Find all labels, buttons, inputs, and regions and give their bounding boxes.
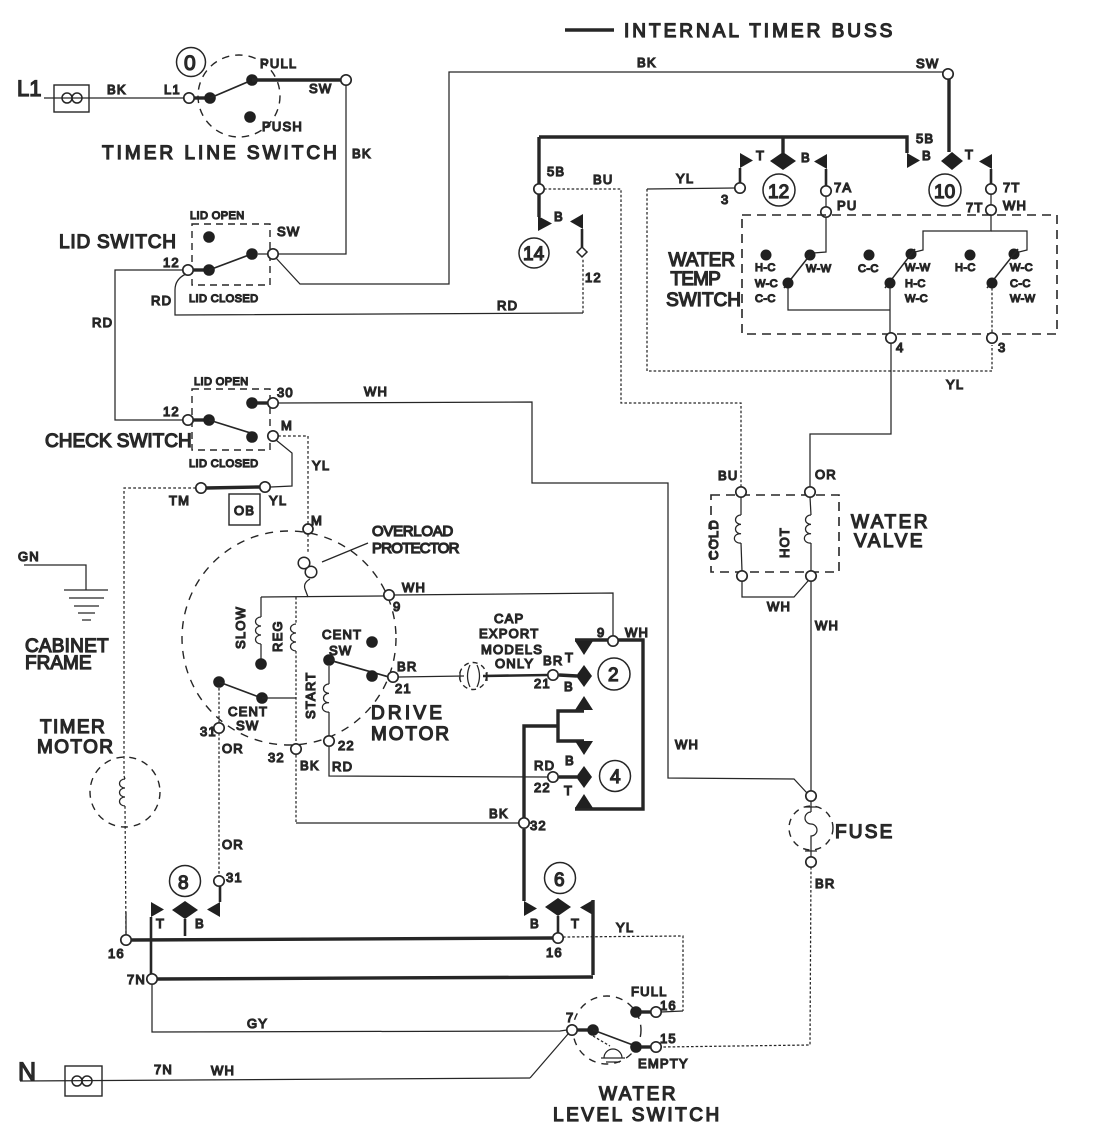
svg-text:WH: WH (1003, 198, 1027, 213)
timer motor (37, 717, 160, 935)
timer cam switch 6 (524, 863, 593, 976)
svg-text:7T: 7T (966, 200, 984, 215)
svg-text:22: 22 (534, 780, 551, 795)
svg-text:BR: BR (815, 876, 835, 891)
svg-text:M: M (281, 418, 293, 433)
svg-text:L1: L1 (164, 82, 181, 97)
svg-text:22: 22 (338, 738, 355, 753)
svg-text:WATER: WATER (851, 512, 930, 533)
svg-text:B: B (564, 679, 574, 694)
node M motor (303, 524, 313, 534)
coil START (303, 666, 329, 736)
svg-text:W-W: W-W (806, 263, 832, 275)
legend INTERNAL TIMER BUSS (565, 21, 895, 42)
svg-text:WH: WH (675, 737, 699, 752)
svg-text:WATER: WATER (669, 250, 736, 271)
svg-text:SW: SW (309, 81, 332, 96)
node 31 upper (200, 688, 244, 756)
svg-text:OB: OB (234, 503, 255, 518)
svg-text:CAP: CAP (494, 611, 524, 626)
svg-text:EMPTY: EMPTY (638, 1056, 689, 1071)
wire M from check switch to motor (278, 436, 330, 528)
svg-text:RD: RD (332, 759, 353, 774)
svg-text:REG: REG (270, 620, 285, 652)
svg-text:6: 6 (554, 870, 565, 891)
svg-text:LID SWITCH: LID SWITCH (59, 232, 177, 253)
svg-text:GY: GY (247, 1016, 268, 1031)
svg-text:B: B (554, 209, 564, 224)
contact C-C (858, 250, 879, 276)
svg-text:T: T (564, 783, 573, 798)
coil SLOW (233, 597, 267, 670)
node 22 motor (324, 736, 355, 774)
svg-text:W-C: W-C (1010, 262, 1033, 274)
node 16 left (108, 935, 131, 961)
svg-text:WH: WH (767, 599, 791, 614)
svg-text:T: T (965, 147, 974, 162)
link cam2 B to cam4 B to node 32 (524, 711, 584, 818)
svg-text:OVERLOAD: OVERLOAD (372, 523, 453, 540)
node TM / YL (169, 482, 287, 508)
svg-text:TEMP: TEMP (670, 269, 720, 290)
svg-text:BR: BR (543, 653, 563, 668)
svg-text:T: T (571, 916, 580, 931)
switch C (W-C C-C W-W) (987, 231, 1036, 333)
svg-text:BU: BU (593, 172, 613, 187)
svg-text:OR: OR (815, 467, 837, 482)
svg-text:GN: GN (18, 549, 40, 564)
coil COLD (706, 497, 742, 571)
svg-text:C-C: C-C (858, 263, 879, 275)
cabinet frame ground (18, 549, 109, 674)
terminal N (18, 1058, 530, 1096)
svg-text:MODELS: MODELS (481, 642, 543, 657)
svg-text:B: B (530, 916, 540, 931)
svg-text:7N: 7N (127, 972, 146, 987)
svg-text:DRIVE: DRIVE (371, 703, 445, 724)
water level switch (553, 984, 722, 1126)
terminal L1 (17, 76, 187, 112)
svg-text:BK: BK (107, 82, 127, 97)
box OB (229, 494, 260, 525)
timer cam switch 4 (559, 741, 631, 808)
svg-text:32: 32 (530, 818, 547, 833)
svg-text:H-C: H-C (755, 262, 776, 274)
svg-text:16: 16 (660, 998, 677, 1013)
svg-text:WH: WH (211, 1063, 235, 1078)
timer cam switch 2 and 4 block bracket (575, 640, 643, 809)
wire YL from check switch M to TM-YL node (271, 440, 292, 487)
svg-text:21: 21 (534, 676, 551, 691)
wire GY (152, 985, 567, 1032)
svg-text:3: 3 (998, 340, 1006, 355)
svg-text:FUSE: FUSE (835, 822, 894, 843)
svg-text:LID OPEN: LID OPEN (190, 210, 245, 222)
svg-text:T: T (756, 148, 765, 163)
cent sw upper (322, 627, 389, 682)
svg-text:W-W: W-W (905, 262, 931, 274)
svg-text:9: 9 (393, 599, 401, 614)
switch B (W-W H-C W-C) (885, 215, 992, 333)
drive motor (182, 531, 451, 745)
wire RD from lid switch to cam 14 terminal 12 (151, 258, 583, 315)
svg-text:BU: BU (718, 468, 738, 483)
svg-text:7N: 7N (154, 1062, 173, 1077)
contact H-C (755, 250, 778, 306)
svg-text:3: 3 (721, 192, 729, 207)
node 21 BR (388, 659, 418, 696)
node 22 cam 4 (534, 758, 558, 795)
wire OR from 31 down to cam 8 (219, 733, 244, 876)
svg-text:RD: RD (92, 315, 113, 330)
svg-text:12: 12 (768, 182, 789, 203)
svg-text:CENT: CENT (228, 704, 268, 719)
water valve (711, 495, 930, 572)
bus 5B (internal timer buss) (539, 131, 934, 184)
svg-text:OR: OR (222, 741, 244, 756)
timer cam switch 14 (519, 194, 602, 285)
svg-text:PUSH: PUSH (262, 119, 303, 134)
svg-text:W-C: W-C (905, 293, 928, 305)
wire BK node32 to cam 6 (522, 829, 525, 901)
wire TM down left side (124, 488, 196, 776)
svg-text:MOTOR: MOTOR (371, 724, 451, 745)
lid switch (59, 210, 300, 305)
wire YL to water level switch (563, 920, 683, 1011)
svg-text:BK: BK (300, 758, 320, 773)
svg-text:2: 2 (608, 665, 619, 686)
svg-text:MOTOR: MOTOR (37, 737, 114, 758)
svg-text:C-C: C-C (755, 293, 776, 305)
svg-text:B: B (922, 148, 932, 163)
svg-text:CHECK SWITCH: CHECK SWITCH (45, 431, 192, 452)
svg-text:12: 12 (163, 255, 180, 270)
svg-text:INTERNAL TIMER BUSS: INTERNAL TIMER BUSS (624, 21, 895, 42)
wire YL to cam 12 terminal 3 (647, 171, 992, 392)
node SW (341, 75, 351, 85)
svg-text:LEVEL SWITCH: LEVEL SWITCH (553, 1105, 722, 1126)
switch A (W-W) (783, 217, 891, 310)
svg-text:L1: L1 (17, 76, 41, 101)
svg-text:OR: OR (222, 837, 244, 852)
svg-text:YL: YL (312, 458, 330, 473)
terminal 4 (886, 333, 905, 355)
svg-text:30: 30 (277, 385, 294, 400)
wire RD from 22 to cam 4 node 22 (329, 747, 548, 777)
timer line switch (102, 48, 340, 165)
node 5B (534, 184, 544, 194)
svg-text:12: 12 (163, 404, 180, 419)
svg-text:RD: RD (534, 758, 555, 773)
wire SW down to cam 10 (947, 79, 950, 152)
fuse (789, 791, 894, 891)
timer cam switch 10 (907, 147, 1027, 215)
timer cam switch 8 (151, 866, 220, 976)
svg-text:BK: BK (352, 146, 372, 161)
svg-text:0: 0 (184, 52, 196, 75)
svg-text:TM: TM (169, 493, 190, 508)
wire BU (544, 172, 741, 487)
svg-text:C-C: C-C (1010, 278, 1031, 290)
svg-text:32: 32 (268, 750, 285, 765)
svg-text:YL: YL (616, 920, 634, 935)
valve terminal OR (805, 487, 815, 497)
valve terminal BU (736, 487, 746, 497)
svg-text:16: 16 (546, 945, 563, 960)
svg-text:21: 21 (395, 681, 412, 696)
overload protector (298, 523, 459, 597)
svg-text:B: B (801, 150, 811, 165)
svg-text:31: 31 (226, 870, 243, 885)
node 32 (489, 806, 547, 833)
svg-text:SLOW: SLOW (233, 606, 248, 649)
svg-text:4: 4 (896, 340, 904, 355)
wire 7N bus (157, 977, 593, 979)
svg-text:PULL: PULL (260, 56, 297, 71)
svg-text:N: N (18, 1058, 36, 1086)
svg-text:SW: SW (277, 224, 300, 239)
wire WH valve to fuse (811, 581, 839, 791)
svg-text:ONLY: ONLY (495, 656, 534, 671)
svg-text:BR: BR (397, 659, 417, 674)
wire OR from terminal 4 to water valve (810, 344, 891, 487)
svg-text:LID CLOSED: LID CLOSED (189, 293, 258, 305)
svg-text:VALVE: VALVE (854, 531, 925, 552)
svg-text:PROTECTOR: PROTECTOR (372, 540, 460, 557)
svg-text:FULL: FULL (631, 984, 668, 999)
water temp switch (666, 215, 1057, 334)
svg-text:16: 16 (108, 946, 125, 961)
svg-text:WH: WH (625, 625, 649, 640)
svg-text:T: T (156, 916, 165, 931)
svg-text:5B: 5B (916, 131, 934, 146)
svg-text:12: 12 (585, 270, 602, 285)
svg-text:15: 15 (660, 1031, 677, 1046)
svg-text:14: 14 (523, 244, 545, 265)
node 16 cam 6 (546, 933, 563, 960)
svg-text:H-C: H-C (905, 278, 926, 290)
svg-text:31: 31 (200, 724, 217, 739)
svg-text:TIMER LINE SWITCH: TIMER LINE SWITCH (102, 143, 340, 164)
node 9 WH (384, 590, 394, 600)
svg-text:WATER: WATER (599, 1084, 678, 1105)
svg-text:LID OPEN: LID OPEN (194, 376, 249, 388)
svg-text:EXPORT: EXPORT (479, 626, 539, 641)
wire SW from timer line switch (252, 78, 341, 81)
cent sw lower (213, 676, 296, 733)
svg-text:FRAME: FRAME (25, 653, 92, 674)
svg-text:H-C: H-C (955, 262, 976, 274)
timer cam switch 12 (721, 137, 857, 217)
svg-text:TIMER: TIMER (40, 717, 106, 738)
node 9 WH right (597, 625, 649, 646)
svg-text:BK: BK (637, 55, 657, 70)
node 21 cam 2 (534, 653, 563, 691)
svg-text:BK: BK (489, 806, 509, 821)
svg-text:YL: YL (676, 171, 694, 186)
check switch (45, 376, 294, 470)
svg-text:RD: RD (497, 298, 518, 313)
svg-text:T: T (565, 650, 574, 665)
capacitor C (cap export models only) (399, 611, 548, 690)
valve bottom terminals (737, 571, 747, 581)
wire BR fuse to water level switch (662, 867, 811, 1047)
coil HOT (777, 497, 811, 571)
contact H-C 2 (955, 250, 976, 275)
wire WH row inside motor (261, 580, 613, 636)
svg-text:CENT: CENT (322, 627, 362, 642)
svg-text:5B: 5B (547, 164, 565, 179)
svg-text:SWITCH: SWITCH (666, 290, 741, 311)
svg-text:W-C: W-C (755, 278, 778, 290)
svg-text:B: B (565, 753, 575, 768)
svg-text:PU: PU (837, 198, 857, 213)
svg-text:YL: YL (269, 493, 287, 508)
svg-text:WH: WH (402, 580, 426, 595)
wire BK down to lid switch (279, 85, 372, 254)
terminal 3 (987, 333, 1007, 355)
svg-text:WH: WH (815, 618, 839, 633)
svg-text:9: 9 (597, 625, 605, 640)
wire from lid switch SW to top BK bus (276, 55, 944, 284)
node 7N (127, 972, 157, 987)
wire N to water level switch 7 (530, 1034, 568, 1078)
svg-text:SW: SW (236, 718, 259, 733)
node 32 motor (268, 744, 320, 773)
svg-text:B: B (195, 916, 205, 931)
wire WH from check switch 30 to fuse (278, 384, 807, 793)
svg-text:7A: 7A (834, 180, 852, 195)
svg-text:COLD: COLD (706, 519, 721, 560)
timer cam switch 2 (559, 641, 630, 710)
svg-text:HOT: HOT (777, 527, 792, 558)
svg-text:LID CLOSED: LID CLOSED (189, 458, 258, 470)
svg-text:10: 10 (934, 182, 955, 203)
svg-text:7: 7 (566, 1010, 574, 1025)
svg-text:YL: YL (946, 377, 964, 392)
wire 16 bus (131, 938, 553, 940)
coil REG (270, 597, 296, 744)
node 31 lower (214, 870, 243, 886)
svg-text:8: 8 (178, 873, 189, 894)
svg-text:WH: WH (364, 384, 388, 399)
svg-text:W-W: W-W (1010, 293, 1036, 305)
wire from TM vertical into 16 (125, 912, 127, 935)
wire BK from 32 down to node 32 (295, 755, 297, 823)
node SW top right (943, 69, 953, 79)
svg-text:START: START (303, 672, 318, 719)
svg-text:7T: 7T (1003, 180, 1021, 195)
svg-text:RD: RD (151, 293, 172, 308)
svg-text:SW: SW (916, 56, 939, 71)
wire RD from lid switch 12 down to check switch (92, 270, 183, 420)
svg-text:4: 4 (610, 767, 621, 788)
wire WH valve jumper (742, 581, 808, 614)
